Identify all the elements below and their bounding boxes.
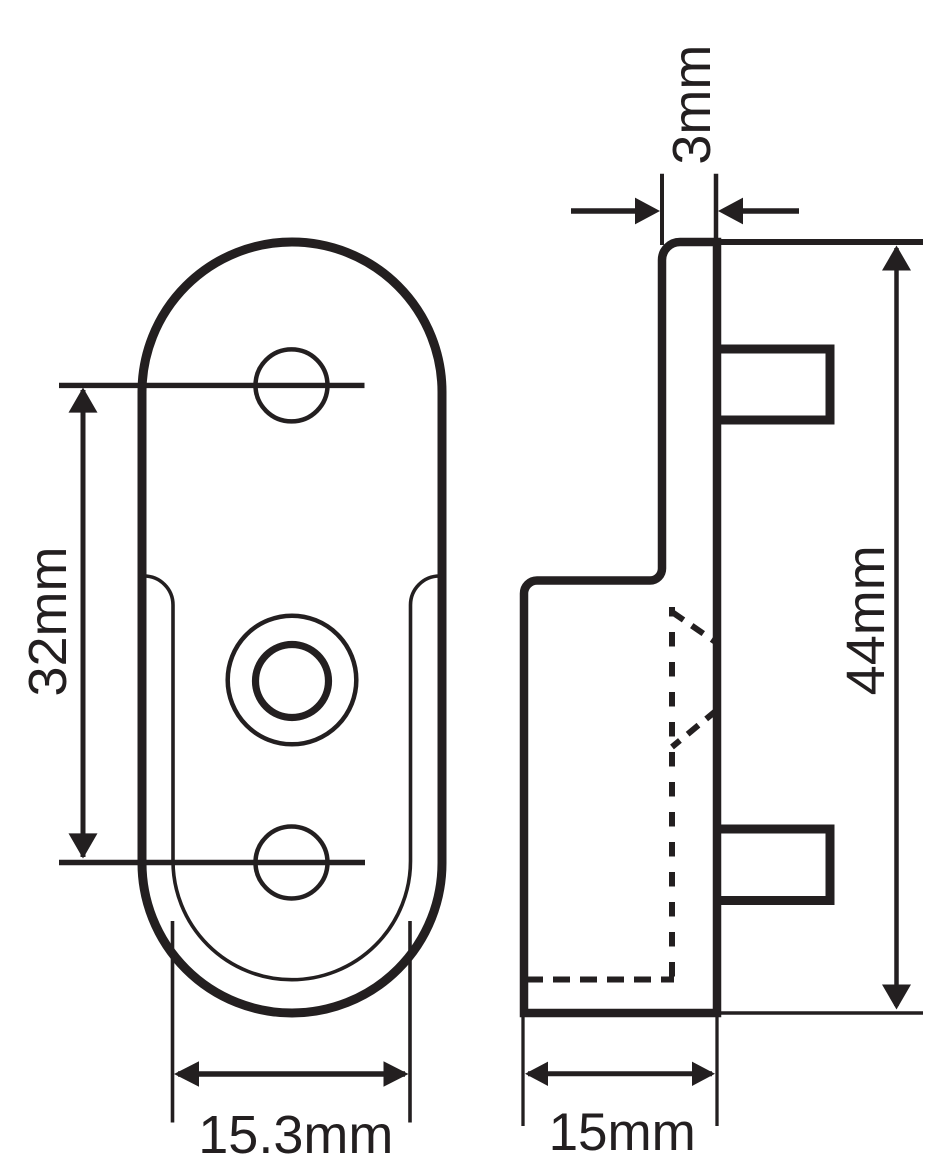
svg-text:3mm: 3mm <box>662 45 722 165</box>
svg-text:32mm: 32mm <box>18 546 78 696</box>
svg-text:44mm: 44mm <box>836 545 896 695</box>
svg-text:15.3mm: 15.3mm <box>198 1105 393 1162</box>
svg-text:15mm: 15mm <box>549 1103 696 1162</box>
